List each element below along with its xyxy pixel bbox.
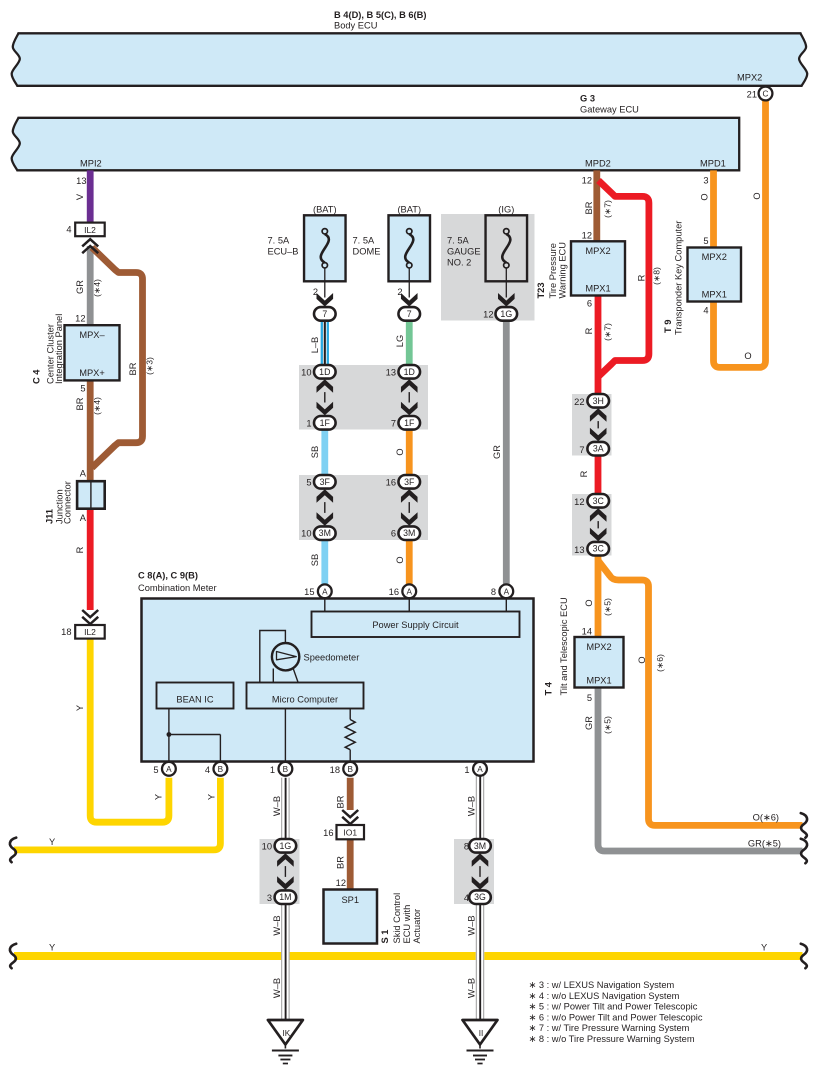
svg-text:ECU with: ECU with <box>402 905 412 944</box>
svg-text:3A: 3A <box>593 444 604 454</box>
svg-text:R: R <box>579 470 589 477</box>
svg-text:10: 10 <box>301 529 311 539</box>
connector oval 1F pin7 <box>398 416 420 430</box>
connector oval 1G pin10 <box>275 839 297 853</box>
svg-text:DOME: DOME <box>353 247 381 257</box>
svg-text:Actuator: Actuator <box>412 909 422 944</box>
connector oval 3H pin22 <box>587 394 609 408</box>
connector oval 1D pin13 <box>398 365 420 379</box>
svg-text:MPX2: MPX2 <box>585 246 610 256</box>
svg-text:12: 12 <box>582 175 592 185</box>
svg-text:IL2: IL2 <box>84 627 96 637</box>
svg-text:T23: T23 <box>536 282 546 298</box>
svg-text:6: 6 <box>587 299 592 309</box>
svg-text:1M: 1M <box>279 892 291 902</box>
connector oval 3M pin8 <box>469 839 491 853</box>
svg-text:12: 12 <box>75 314 85 324</box>
wire GR gray (*4) <box>87 246 94 325</box>
svg-text:5: 5 <box>306 477 311 487</box>
svg-text:3M: 3M <box>319 528 331 538</box>
svg-text:∗ 3 : w/ LEXUS Navigation Syst: ∗ 3 : w/ LEXUS Navigation System <box>529 980 675 990</box>
svg-text:II: II <box>479 1029 484 1038</box>
svg-text:10: 10 <box>262 842 272 852</box>
svg-text:J11: J11 <box>45 509 55 524</box>
svg-text:8: 8 <box>491 587 496 597</box>
svg-text:3F: 3F <box>320 477 331 487</box>
svg-text:5: 5 <box>153 765 158 775</box>
gray junction block 3C/3C <box>572 494 612 556</box>
svg-text:12: 12 <box>574 497 584 507</box>
ground II <box>463 1020 498 1045</box>
svg-text:Warning ECU: Warning ECU <box>558 242 568 299</box>
svg-text:16: 16 <box>389 587 399 597</box>
wire R red (*8) bypass branch <box>599 181 649 377</box>
meter pin 18 B <box>343 762 357 776</box>
wire LG green fuse DOME to 1D <box>406 321 413 368</box>
svg-text:13: 13 <box>386 367 396 377</box>
svg-text:BR: BR <box>128 362 138 375</box>
svg-text:Connector: Connector <box>63 481 73 524</box>
svg-text:MPX1: MPX1 <box>585 284 610 294</box>
svg-text:3C: 3C <box>593 544 605 554</box>
svg-text:O: O <box>395 556 405 563</box>
wire Y yellow IL2-18 to meter pin 5A <box>90 639 169 823</box>
svg-text:O: O <box>744 351 751 361</box>
T9 Transponder Key Computer <box>688 248 742 302</box>
wire GR gray (*5) T4 pin5 to right edge <box>598 687 803 851</box>
svg-text:15: 15 <box>304 587 314 597</box>
Power Supply Circuit box <box>324 597 326 612</box>
svg-text:(∗5): (∗5) <box>603 716 613 734</box>
svg-text:C: C <box>763 90 769 99</box>
svg-text:3: 3 <box>267 893 272 903</box>
svg-text:5: 5 <box>587 693 592 703</box>
svg-text:4: 4 <box>66 225 71 235</box>
break symbol gray right <box>801 839 807 864</box>
wire V violet MPI2 pin13 <box>87 170 94 222</box>
svg-text:21: 21 <box>747 90 757 100</box>
internal wiring BEAN IC to pins 5A/4B <box>168 709 170 764</box>
svg-text:O: O <box>395 448 405 455</box>
svg-text:6: 6 <box>391 529 396 539</box>
connector oval 1M pin3 <box>275 890 297 904</box>
wire O orange T9 pin4 loop to bus pin21 C <box>714 100 766 367</box>
svg-text:BEAN IC: BEAN IC <box>176 695 213 705</box>
meter pin 5 A <box>162 762 176 776</box>
svg-text:R: R <box>75 546 85 553</box>
svg-text:∗ 7 : w/ Tire Pressure Warning: ∗ 7 : w/ Tire Pressure Warning System <box>529 1023 690 1033</box>
svg-text:IO1: IO1 <box>343 828 357 838</box>
svg-text:ECU–B: ECU–B <box>268 247 299 257</box>
fuse leads and arrows <box>324 268 326 298</box>
svg-text:SB: SB <box>310 446 320 458</box>
wire BR brown MPD2 pin12 to T23 <box>593 170 600 243</box>
svg-text:3C: 3C <box>593 496 605 506</box>
BEAN IC box <box>157 683 234 709</box>
wire Y yellow main bus bottom <box>14 952 803 960</box>
T4 Tilt and Telescopic ECU <box>575 637 624 688</box>
T23 Tire Pressure Warning ECU <box>571 241 625 295</box>
svg-text:BR: BR <box>75 397 85 410</box>
svg-text:1G: 1G <box>280 841 292 851</box>
svg-text:18: 18 <box>330 765 340 775</box>
svg-text:LG: LG <box>395 335 405 347</box>
meter pin 8 A <box>499 584 513 598</box>
break symbol orange right <box>801 813 807 838</box>
svg-text:5: 5 <box>80 384 85 394</box>
connector oval 1G pin12 (GAUGE) <box>496 307 518 321</box>
chevrons above IO1 <box>342 810 358 824</box>
svg-text:W–B: W–B <box>272 978 282 998</box>
svg-text:GR: GR <box>492 445 502 459</box>
svg-text:SB: SB <box>310 554 320 566</box>
fuse 7. 5A DOME <box>389 215 431 281</box>
svg-text:T 4: T 4 <box>544 681 554 695</box>
svg-text:1D: 1D <box>404 367 415 377</box>
gray junction block 3H/3A <box>572 394 612 456</box>
gray junction block 3F/3M <box>299 475 428 540</box>
svg-text:B: B <box>347 765 353 774</box>
svg-text:Y: Y <box>207 794 217 800</box>
connector oval 3M pin6 <box>398 526 420 540</box>
svg-text:7: 7 <box>322 309 327 319</box>
svg-text:V: V <box>75 193 85 200</box>
svg-text:GR(∗5): GR(∗5) <box>748 839 781 849</box>
svg-text:(∗4): (∗4) <box>92 279 102 297</box>
svg-text:3F: 3F <box>404 477 415 487</box>
svg-text:3G: 3G <box>474 892 486 902</box>
break symbol yellow left lower <box>10 944 16 969</box>
connector oval 7 (DOME) <box>398 307 420 321</box>
Gateway ECU bus bar G3 <box>12 118 740 171</box>
svg-text:B 4(D), B 5(C), B 6(B): B 4(D), B 5(C), B 6(B) <box>334 10 426 20</box>
svg-text:1: 1 <box>270 765 275 775</box>
svg-text:A: A <box>80 469 87 479</box>
svg-text:16: 16 <box>386 477 396 487</box>
gray junction block 3M/3G <box>454 839 494 904</box>
svg-text:10: 10 <box>301 367 311 377</box>
svg-text:MPI2: MPI2 <box>80 159 102 169</box>
resistor inside meter <box>349 709 351 720</box>
svg-text:(∗5): (∗5) <box>603 598 613 616</box>
svg-text:A: A <box>322 587 328 596</box>
connector IL2 pin4 <box>75 223 105 237</box>
svg-text:O: O <box>637 656 647 663</box>
C4 Center Cluster Integration Panel <box>65 325 120 380</box>
meter pin 1 B <box>279 762 293 776</box>
svg-text:7. 5A: 7. 5A <box>353 236 376 246</box>
svg-text:W–B: W–B <box>272 796 282 816</box>
svg-text:3H: 3H <box>593 396 604 406</box>
wire O orange 1F to 3F <box>406 424 413 480</box>
svg-text:MPX+: MPX+ <box>79 368 105 378</box>
wire W-B 3G to ground II <box>476 897 485 1020</box>
wire Y yellow meter pin 4B to left edge <box>14 778 220 850</box>
svg-text:B: B <box>283 765 289 774</box>
svg-text:1D: 1D <box>319 367 330 377</box>
svg-text:NO. 2: NO. 2 <box>447 258 471 268</box>
connector oval 3C pin12 <box>587 494 609 508</box>
svg-text:2: 2 <box>313 287 318 297</box>
svg-text:MPX1: MPX1 <box>586 676 611 686</box>
connector oval 3G pin4 <box>469 890 491 904</box>
svg-text:BR: BR <box>336 856 346 869</box>
svg-text:7: 7 <box>391 418 396 428</box>
svg-text:B: B <box>218 765 224 774</box>
wire SB skyblue 3M to meter 15A <box>321 534 328 588</box>
svg-text:W–B: W–B <box>467 915 477 935</box>
svg-text:Gateway ECU: Gateway ECU <box>580 105 639 115</box>
speedometer symbol <box>260 631 286 683</box>
svg-text:L–B: L–B <box>310 337 320 354</box>
svg-text:(∗8): (∗8) <box>652 267 662 285</box>
svg-text:(∗7): (∗7) <box>603 200 613 218</box>
svg-text:MPX2: MPX2 <box>702 252 727 262</box>
svg-text:GAUGE: GAUGE <box>447 247 481 257</box>
svg-text:O: O <box>700 193 710 200</box>
svg-text:(∗4): (∗4) <box>92 397 102 415</box>
fuse 7. 5A GAUGE <box>486 215 528 281</box>
svg-text:1: 1 <box>464 765 469 775</box>
svg-text:C 8(A), C 9(B): C 8(A), C 9(B) <box>138 571 198 581</box>
svg-text:IK: IK <box>283 1029 291 1038</box>
svg-text:MPX1: MPX1 <box>702 290 727 300</box>
wire GR gray fuse GAUGE to meter 8A <box>503 318 510 588</box>
svg-text:16: 16 <box>323 828 333 838</box>
svg-text:7: 7 <box>407 309 412 319</box>
svg-text:∗ 5 : w/ Power Tilt and Power: ∗ 5 : w/ Power Tilt and Power Telescopic <box>529 1002 698 1012</box>
svg-text:SP1: SP1 <box>341 895 359 905</box>
svg-text:13: 13 <box>76 176 86 186</box>
svg-text:12: 12 <box>582 231 592 241</box>
meter pin 15 A <box>318 584 332 598</box>
svg-text:22: 22 <box>574 397 584 407</box>
svg-text:7: 7 <box>579 445 584 455</box>
svg-text:MPD1: MPD1 <box>700 159 726 169</box>
svg-text:(BAT): (BAT) <box>313 204 337 214</box>
wire O orange MPD1 pin3 to T9 pin5 <box>710 170 717 249</box>
svg-text:13: 13 <box>574 545 584 555</box>
connector oval 3C pin13 <box>587 542 609 556</box>
svg-text:A: A <box>166 765 172 774</box>
Combination Meter C8(A) C9(B) <box>142 599 534 762</box>
svg-text:Micro Computer: Micro Computer <box>272 695 338 705</box>
svg-text:(∗6): (∗6) <box>655 654 665 672</box>
wire W-B meter 1B to 1G <box>281 778 290 846</box>
wire BR brown IO1 to SP1 <box>347 839 354 890</box>
wire BR brown (*4) <box>87 380 94 481</box>
svg-text:2: 2 <box>397 287 402 297</box>
svg-text:A: A <box>504 587 510 596</box>
svg-text:(∗3): (∗3) <box>145 357 155 375</box>
svg-text:Combination Meter: Combination Meter <box>138 583 217 593</box>
svg-text:MPX2: MPX2 <box>737 73 762 83</box>
svg-text:Tilt and Telescopic ECU: Tilt and Telescopic ECU <box>559 597 569 695</box>
svg-text:5: 5 <box>703 236 708 246</box>
svg-text:GR: GR <box>584 716 594 730</box>
svg-text:A: A <box>80 513 87 523</box>
svg-text:GR: GR <box>75 280 85 294</box>
connector circle C pin21 on Body ECU <box>759 87 773 101</box>
connector oval 3F pin5 <box>314 475 336 489</box>
svg-text:7. 5A: 7. 5A <box>447 236 470 246</box>
svg-text:Transponder Key Computer: Transponder Key Computer <box>674 221 684 335</box>
svg-text:4: 4 <box>205 765 210 775</box>
wire BR brown (*3) loop bypass <box>92 248 143 468</box>
svg-text:BR: BR <box>584 201 594 214</box>
break symbol yellow left upper <box>10 838 16 863</box>
connector oval 3M pin10 <box>314 526 336 540</box>
Body ECU bus bar B4(D),B5(C),B6(B) <box>12 33 808 86</box>
wire O orange 3C to T4 pin14 <box>595 549 602 638</box>
wire BR brown meter 18B to IO1 <box>347 778 354 810</box>
svg-text:MPX–: MPX– <box>79 330 105 340</box>
svg-text:12: 12 <box>483 310 493 320</box>
connector oval 1F pin1 <box>314 416 336 430</box>
svg-text:1: 1 <box>306 418 311 428</box>
svg-text:(BAT): (BAT) <box>397 204 421 214</box>
svg-text:Speedometer: Speedometer <box>304 653 360 663</box>
svg-text:(IG): (IG) <box>498 204 514 214</box>
connector oval 3A pin7 <box>587 442 609 456</box>
svg-text:A: A <box>477 765 483 774</box>
break symbol yellow right <box>801 944 807 969</box>
ground IK <box>268 1020 303 1045</box>
svg-text:C 4: C 4 <box>32 369 42 384</box>
svg-text:4: 4 <box>464 893 469 903</box>
connector IL2 pin18 <box>75 625 105 639</box>
meter pin 1 A <box>473 762 487 776</box>
wire W-B meter 1A to 3M <box>476 775 485 846</box>
svg-text:1F: 1F <box>404 418 415 428</box>
svg-text:Y: Y <box>154 794 164 800</box>
svg-text:∗ 4 : w/o LEXUS Navigation Sys: ∗ 4 : w/o LEXUS Navigation System <box>529 991 680 1001</box>
svg-text:3M: 3M <box>474 841 486 851</box>
fuse 7. 5A ECU&#8211;B <box>304 215 346 281</box>
wire W-B 1M to ground IK <box>281 897 290 1020</box>
internal wiring Micro Computer to pin 1B <box>284 709 286 764</box>
svg-text:IL2: IL2 <box>84 225 96 235</box>
svg-text:∗ 6 : w/o Power Tilt and Power: ∗ 6 : w/o Power Tilt and Power Telescopi… <box>529 1012 703 1022</box>
svg-text:(∗7): (∗7) <box>603 323 613 341</box>
svg-text:1F: 1F <box>320 418 331 428</box>
svg-text:O: O <box>584 599 594 606</box>
J11 junction connector <box>77 481 105 509</box>
chevrons above IL2 pin18 <box>82 610 98 624</box>
svg-text:Body ECU: Body ECU <box>334 21 377 31</box>
svg-text:T 9: T 9 <box>663 320 673 333</box>
gray junction block 1D/1F <box>299 365 428 430</box>
svg-text:R: R <box>637 274 647 281</box>
shield chevrons below IL2 <box>82 239 98 253</box>
svg-text:G 3: G 3 <box>580 94 595 104</box>
svg-text:O: O <box>752 192 762 199</box>
wire O orange 3M to meter 16A <box>406 534 413 588</box>
svg-text:Power Supply Circuit: Power Supply Circuit <box>372 620 459 630</box>
S1 Skid Control ECU with Actuator <box>324 890 378 944</box>
svg-text:S 1: S 1 <box>380 930 390 944</box>
svg-text:3: 3 <box>703 175 708 185</box>
svg-text:Y: Y <box>49 837 55 847</box>
svg-text:8: 8 <box>464 842 469 852</box>
wire R red 3A to 3C <box>595 449 602 501</box>
gray junction block 1G/1M <box>260 839 300 904</box>
svg-text:W–B: W–B <box>272 915 282 935</box>
svg-text:O(∗6): O(∗6) <box>753 813 779 823</box>
svg-text:14: 14 <box>582 627 592 637</box>
Micro Computer box <box>247 683 364 709</box>
meter pin 16 A <box>402 584 416 598</box>
wire R red J11 to IL2 <box>87 505 94 611</box>
svg-text:W–B: W–B <box>467 978 477 998</box>
svg-text:Integration Panel: Integration Panel <box>54 314 64 384</box>
svg-text:12: 12 <box>336 878 346 888</box>
connector IO1 pin16 <box>337 825 365 839</box>
connector oval 7 (ECU-B) <box>314 307 336 321</box>
svg-text:W–B: W–B <box>467 796 477 816</box>
svg-text:7. 5A: 7. 5A <box>268 236 291 246</box>
svg-text:A: A <box>407 587 413 596</box>
svg-text:MPD2: MPD2 <box>585 159 611 169</box>
svg-text:18: 18 <box>61 627 71 637</box>
svg-text:Skid Control: Skid Control <box>392 893 402 944</box>
gray fuse box GAUGE NO.2 <box>441 214 535 321</box>
svg-text:3M: 3M <box>403 528 415 538</box>
wire O orange (*6) branch to right edge <box>598 561 802 825</box>
svg-text:Y: Y <box>49 943 55 953</box>
svg-text:R: R <box>584 327 594 334</box>
svg-text:MPX2: MPX2 <box>586 642 611 652</box>
svg-text:BR: BR <box>336 795 346 808</box>
connector oval 1D pin10 <box>314 365 336 379</box>
svg-text:Y: Y <box>761 943 767 953</box>
wire R red (*7) T23 to 3H <box>595 296 602 397</box>
svg-text:Y: Y <box>75 705 85 711</box>
meter pin 4 B <box>214 762 228 776</box>
wire L-B fuse ECU-B to 1D <box>321 321 323 368</box>
wire SB skyblue 1F to 3F <box>321 424 328 480</box>
svg-text:4: 4 <box>703 306 708 316</box>
svg-text:∗ 8 : w/o Tire Pressure Warnin: ∗ 8 : w/o Tire Pressure Warning System <box>529 1034 695 1044</box>
svg-text:1G: 1G <box>500 309 512 319</box>
connector oval 3F pin16 <box>398 475 420 489</box>
svg-text:Tire Pressure: Tire Pressure <box>548 243 558 298</box>
